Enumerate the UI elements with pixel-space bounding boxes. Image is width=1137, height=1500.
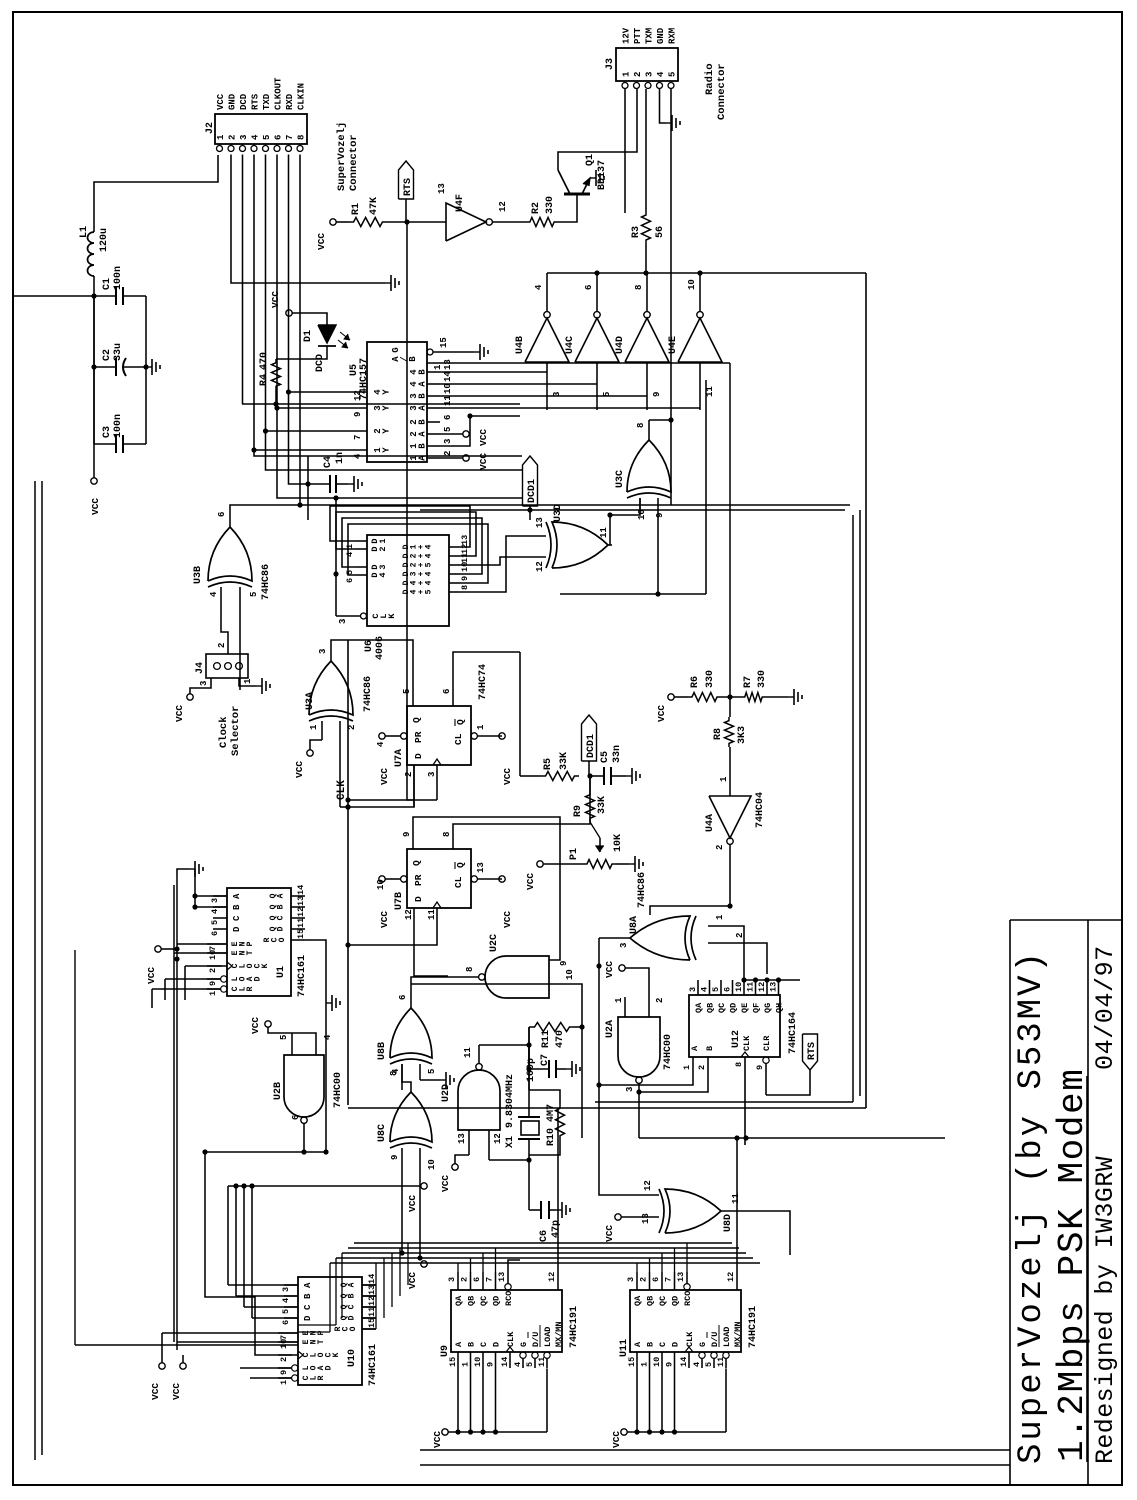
U7A CLK pin 3 wire [436,765,438,800]
svg-text:74HC191: 74HC191 [569,1306,580,1348]
svg-text:R9: R9 [573,805,584,817]
U10 VCC circles at left [159,1363,165,1369]
svg-text:U3C: U3C [615,470,626,488]
U2D out to R11 top wire [479,1044,529,1046]
svg-text:CL: CL [453,733,464,745]
svg-text:1: 1 [682,1065,692,1070]
svg-text:1: 1 [378,538,388,543]
svg-text:B: B [277,904,286,909]
svg-text:K: K [261,963,270,968]
svg-text:7: 7 [279,1335,289,1340]
svg-text:QC: QC [658,1296,668,1306]
svg-text:Connector: Connector [348,134,360,191]
J4 pin 3 wire to VCC [190,678,211,694]
capacitor C7 100p [529,1068,549,1070]
R3 wires [645,89,647,211]
svg-text:B: B [646,1342,656,1347]
svg-text:U9: U9 [440,1345,451,1357]
wire loop horizontals left of trunks [329,1263,331,1332]
svg-text:LOAD: LOAD [543,1327,553,1347]
svg-text:R3: R3 [631,226,642,238]
VCC of U2D [452,1164,458,1170]
NAND U2D 74HC00 (osc) [458,1070,500,1130]
svg-text:R8: R8 [713,728,724,740]
U8D input 13 from VCC [621,1216,659,1218]
U6 feedback loop wires [330,506,470,547]
svg-text:A: A [690,1045,700,1051]
svg-text:7: 7 [353,435,363,440]
svg-text:12: 12 [757,982,767,992]
svg-text:P: P [246,941,255,946]
svg-text:10: 10 [687,279,697,290]
U1 data pin 5 C [213,917,227,919]
U9 pin 15 A [457,1352,459,1368]
svg-text:74HC191: 74HC191 [748,1306,759,1348]
wire U4F out to R2 [492,221,526,223]
svg-text:330: 330 [545,196,556,214]
U12 output pin 3 QA [697,980,699,995]
svg-text:A: A [454,1341,464,1347]
svg-text:3: 3 [626,1277,636,1282]
svg-text:VCC: VCC [478,453,489,470]
VCC of J4 [187,694,193,700]
resistor R8 3K3 [725,717,734,747]
svg-text:1: 1 [309,724,319,730]
svg-text:9: 9 [665,1362,675,1367]
U10 pin 10 ENT [278,1341,298,1343]
svg-text:13: 13 [460,535,470,545]
svg-text:3K3: 3K3 [737,726,748,744]
wire big loop left verticals [348,1107,866,1109]
svg-text:10: 10 [427,1159,437,1170]
svg-text:MX/MN: MX/MN [554,1321,564,1347]
U12 A/B input wires [599,1072,693,1085]
svg-text:4: 4 [281,1298,291,1303]
svg-text:D: D [413,896,424,902]
U3D output pin 11 [608,544,612,546]
svg-text:9: 9 [460,576,470,581]
U12 output pin 5 QC [720,980,722,995]
svg-text:13: 13 [437,183,447,194]
VCC feed of DCD LED [286,310,292,316]
svg-text:2: 2 [443,451,453,456]
svg-text:U8B: U8B [377,1042,388,1060]
svg-text:C: C [277,915,286,920]
inverter U4F 74HC04 [446,203,486,241]
svg-text:13: 13 [443,359,453,370]
svg-text:RTS: RTS [251,93,261,110]
svg-text:Y: Y [381,389,391,395]
svg-text:12: 12 [404,909,414,920]
svg-text:12: 12 [547,1272,557,1282]
ground off U1 RCO wire [326,1002,332,1004]
ground of U5 pin15 [474,351,480,353]
capacitor C3 100n [94,443,116,445]
svg-text:9: 9 [353,412,363,417]
svg-text:J3: J3 [605,58,616,70]
svg-text:PR: PR [413,874,424,886]
ground of Q1 emitter [590,177,596,179]
svg-text:10: 10 [734,982,744,992]
U7A D pin 2 wire [413,765,415,807]
U7B Qbar pin8 wire [453,776,590,829]
U7A Qbar stub [453,652,520,686]
svg-text:13: 13 [296,896,306,906]
J3 pin 1 12V [622,83,628,89]
capacitor C6 47p [540,1201,542,1219]
U3A input 1 from VCC [321,721,323,740]
svg-text:D: D [671,1342,681,1347]
svg-text:B: B [705,1046,715,1051]
U4B output wire pin 4 [546,273,548,312]
svg-text:2: 2 [655,998,665,1003]
svg-text:K: K [332,1352,341,1357]
U2B output pin 6 wire [303,1123,305,1152]
svg-text:6: 6 [723,987,733,992]
U2D input 12 wire [488,1130,490,1160]
potentiometer P1 10K [583,860,616,869]
svg-text:9: 9 [652,392,662,397]
svg-text:QD: QD [671,1296,681,1306]
svg-text:K: K [387,613,397,619]
U11 output pin 6 QC [661,1272,663,1290]
svg-text:5: 5 [279,1035,289,1040]
U8B input wires 4,5 [401,1064,403,1090]
svg-text:Q: Q [411,860,422,866]
svg-text:QA: QA [633,1295,643,1306]
svg-text:CLR: CLR [762,1035,772,1051]
U4C output wire pin 6 [596,273,598,312]
U10 data pin 6 D [284,1317,298,1319]
U7A CLK wire to trunk [348,799,437,801]
J2 GND pin wire to ground [231,155,385,284]
svg-text:47K: 47K [369,197,380,215]
U3D out wire to U3C input [610,498,640,545]
U7B D pin 12 wire [413,908,415,950]
U5 pin 1B wire [440,416,470,446]
U9 pin 4 G [520,1352,526,1358]
svg-text:L1: L1 [79,226,90,238]
svg-text:U4F: U4F [455,194,466,212]
U5 select input wires down to U4 inverters [440,371,547,373]
svg-text:R: R [317,1375,326,1380]
IC U5 74HC157 [367,342,427,462]
wire D1 to R4 [276,356,327,359]
svg-text:9: 9 [486,1362,496,1367]
svg-text:DCD: DCD [315,354,326,372]
svg-text:U8D: U8D [723,1214,734,1232]
ground rail of filter caps [145,296,147,444]
svg-text:GND: GND [228,93,238,110]
U12 QE-QH junctions [741,977,746,982]
svg-text:QF: QF [752,1003,762,1013]
capacitor C1 100n [94,295,116,297]
svg-text:SuperVozelj (by S53MV): SuperVozelj (by S53MV) [1013,949,1051,1464]
VCC tie on lower wire 2 [421,1261,427,1267]
resistor R10 4M7 [556,1104,565,1140]
J3 pin 2 PTT [634,83,640,89]
svg-text:U8C: U8C [377,1124,388,1142]
svg-text:VCC: VCC [270,291,281,308]
svg-text:C: C [348,1304,357,1309]
svg-text:QC: QC [717,1003,727,1013]
XOR U8D 74HC86 [665,1189,721,1233]
U1 VCC rail [155,946,161,952]
svg-text:5: 5 [443,427,453,432]
wire U10 outputs to trunks [375,1263,377,1329]
svg-text:100p: 100p [526,1058,537,1082]
Q1 collector wire to J3 PTT [558,89,637,170]
svg-text:P1: P1 [569,848,580,860]
IC U1 74HC161 [227,888,291,996]
svg-text:13: 13 [476,862,486,873]
J3 pin 4 GND [657,83,663,89]
VCC terminal for power filter [91,478,97,484]
svg-text:10: 10 [208,950,218,960]
svg-text:12: 12 [460,544,470,554]
svg-text:QH: QH [775,1003,785,1013]
XOR U3C 74HC86 [627,440,671,492]
svg-text:10: 10 [473,1357,483,1367]
svg-text:6: 6 [345,578,355,583]
svg-text:100n: 100n [113,414,124,438]
svg-text:4: 4 [251,134,261,140]
wire U4F node across to U7A D input [407,222,414,800]
svg-text:9: 9 [402,832,412,837]
resistor R9 33K [586,791,595,822]
svg-text:A: A [417,381,427,387]
junction C1 tap [91,293,96,298]
U11 output pin 2 QB [649,1272,651,1290]
U7A D wire to CLK trunk [348,765,414,807]
svg-text:12: 12 [296,907,306,917]
svg-text:15: 15 [439,337,449,348]
U2B inputs tied to VCC [291,1033,293,1055]
svg-text:RXD: RXD [285,93,295,110]
svg-text:7: 7 [208,946,218,951]
U11 pin 1 B [649,1352,651,1368]
J2 RXD wire row to C4 branch [289,155,301,485]
svg-text:1: 1 [614,997,624,1003]
wire R2 to Q1 base [558,194,577,222]
svg-text:CLK: CLK [506,1331,516,1347]
wire C1 node to top frame [13,295,94,297]
svg-text:3: 3 [427,772,437,777]
U10 output pin 15 RCO [362,1328,376,1330]
U7A PRE pin 4 to VCC [401,733,407,739]
svg-text:6: 6 [210,931,220,936]
svg-text:VCC: VCC [440,1175,451,1192]
U12 output pin 10 QE [743,980,745,995]
U5 input pin 10 3B [427,395,440,397]
svg-text:VCC: VCC [478,429,489,446]
svg-text:U7A: U7A [394,749,405,767]
U1 ground [177,869,189,875]
svg-text:VCC: VCC [611,1431,622,1448]
U6 output pin 9 D4+4 [449,582,460,584]
svg-text:VCC: VCC [146,967,157,984]
svg-text:Q: Q [455,862,466,868]
svg-text:Clock: Clock [218,716,230,748]
svg-text:9: 9 [655,513,665,518]
svg-text:12: 12 [643,1180,653,1191]
svg-text:B: B [417,443,427,449]
svg-text:U4D: U4D [615,336,626,354]
U12 CLR wire to RTS flag [766,1070,810,1095]
svg-text:8: 8 [734,1062,744,1067]
U12 output pin 4 QB [709,980,711,995]
U7A Qbar pin 6 wire [452,686,454,706]
U12 output pin 13 QH [778,980,780,995]
svg-text:RTS: RTS [807,1042,818,1060]
svg-text:J4: J4 [195,662,206,674]
svg-text:3: 3 [378,564,388,569]
U9 RCO wire [508,1260,520,1272]
wire U7A Qbar to R5 [519,652,521,776]
crystal X1 9.8304MHz [528,1139,530,1210]
svg-text:PR: PR [413,731,424,743]
J2 TXD wire row down [266,155,523,471]
U10 control wires to rails [250,1377,292,1379]
svg-text:5: 5 [525,1362,535,1367]
svg-text:10: 10 [443,383,453,394]
svg-text:U10: U10 [347,1349,358,1367]
U2D input 13 from VCC [468,1130,470,1155]
svg-text:D: D [348,1315,357,1320]
U6 input pin 5 D3 [355,566,367,568]
junction R4 to DCD net [273,401,278,406]
U9 output pin 2 QB [470,1272,472,1290]
U11 MX/MN pin 12 wire [736,1272,738,1290]
svg-text:X1: X1 [505,1136,516,1148]
U9 MX/MN pin 12 wire [557,1272,559,1290]
svg-text:VCC: VCC [171,1383,182,1400]
svg-text:74HC164: 74HC164 [788,1012,799,1054]
svg-text:VCC: VCC [525,873,536,890]
svg-text:B: B [232,904,242,910]
U2C output pin 8 wire [411,977,479,984]
svg-text:Y: Y [381,405,391,411]
svg-text:74HC00: 74HC00 [333,1072,344,1108]
svg-text:5: 5 [425,589,434,594]
svg-text:33K: 33K [597,796,608,814]
U7B CLR pin 13 to VCC [471,876,477,882]
svg-text:VCC: VCC [502,911,513,928]
U9 output pin 6 QC [482,1272,484,1290]
U2B out net to U1 RCO and U10 clock [205,1152,292,1355]
svg-text:Y: Y [381,428,391,434]
svg-text:C3: C3 [102,426,113,438]
svg-text:VCC: VCC [432,1431,443,1448]
U8A out trunk wire left [599,938,640,1195]
svg-text:4: 4 [692,1362,702,1367]
svg-text:6: 6 [442,689,452,694]
U1 LOAD/CLR wires [165,978,221,980]
svg-text:2: 2 [217,643,227,648]
svg-text:4: 4 [700,987,710,992]
svg-text:DCD1: DCD1 [527,479,538,503]
wire rung at C4 node [307,456,309,520]
U10 output pin 11 QD [362,1317,376,1319]
wire L1 to J2 pin1 [94,155,218,232]
svg-text:6: 6 [651,1277,661,1282]
U9 pin 10 C [482,1352,484,1368]
flag DCD1 near U5 [529,506,531,520]
J2 CLKIN wire row [299,155,301,506]
resistor R3 56 [642,211,651,244]
U11 output pin 7 QD [674,1272,676,1290]
U7B Q pin9 wire to U2C [413,817,560,960]
U4D input wire pin 9 [646,362,648,410]
svg-text:A: A [303,1282,313,1288]
inverter U4D 74HC04 [625,318,669,362]
svg-text:U11: U11 [619,1339,630,1357]
svg-text:8: 8 [465,967,475,972]
U11 pin 4 G [699,1352,705,1358]
U11 pin 14 CLK [688,1352,690,1368]
ground of U8B input5 [440,1079,446,1081]
svg-text:14: 14 [679,1357,689,1367]
junction osc node left [526,1157,531,1162]
U10 data pin 3 A [284,1284,298,1286]
svg-text:R10: R10 [546,1128,557,1146]
svg-text:CLKIN: CLKIN [297,83,307,110]
svg-text:330: 330 [757,670,768,688]
svg-text:PTT: PTT [633,27,643,44]
svg-text:U2B: U2B [273,1082,284,1100]
svg-text:13: 13 [769,982,779,992]
U9 pin 11 LOAD [544,1352,550,1358]
svg-text:DCD: DCD [239,93,249,110]
svg-text:U4E: U4E [668,336,679,354]
svg-text:9: 9 [755,1065,765,1070]
U9 output pin 13 RCO [505,1284,511,1290]
inverter U4C 74HC04 [575,318,619,362]
svg-text:4: 4 [353,453,363,459]
svg-text:O: O [349,1326,358,1331]
U6 input pin 4 D2 [355,548,367,550]
svg-text:3: 3 [447,1277,457,1282]
svg-text:VCC: VCC [294,761,305,778]
svg-text:13: 13 [641,1213,651,1224]
U11 output pin 3 QA [636,1272,638,1290]
svg-text:U8A: U8A [629,916,640,934]
svg-text:QB: QB [646,1296,656,1306]
wire VCC rail to L1 [93,276,95,478]
svg-text:D1: D1 [303,330,314,342]
svg-text:15: 15 [627,1357,637,1367]
svg-text:4: 4 [323,1034,333,1040]
transistor Q1 BD137 [564,193,590,196]
wire R6R7 node trunk to U5 pin1 [729,363,731,697]
svg-text:9: 9 [390,1155,400,1160]
svg-text:TXM: TXM [645,28,655,44]
svg-text:A: A [232,893,242,899]
U6 input pin 1 D1 [355,540,367,542]
svg-text:B: B [417,369,427,375]
svg-text:1: 1 [216,134,226,140]
U9 output pin 7 QD [495,1272,497,1290]
svg-text:13: 13 [535,517,545,528]
wire bottom-left rail B [41,481,43,1455]
U3A input 2 wire [339,721,341,807]
svg-text:VCC: VCC [502,768,513,785]
U5 output pin 4 1Y [254,449,367,451]
IC U10 74HC161 [298,1277,362,1385]
svg-text:VCC: VCC [90,498,101,515]
svg-text:04/04/97: 04/04/97 [1091,945,1120,1070]
svg-text:U2A: U2A [605,1020,616,1038]
